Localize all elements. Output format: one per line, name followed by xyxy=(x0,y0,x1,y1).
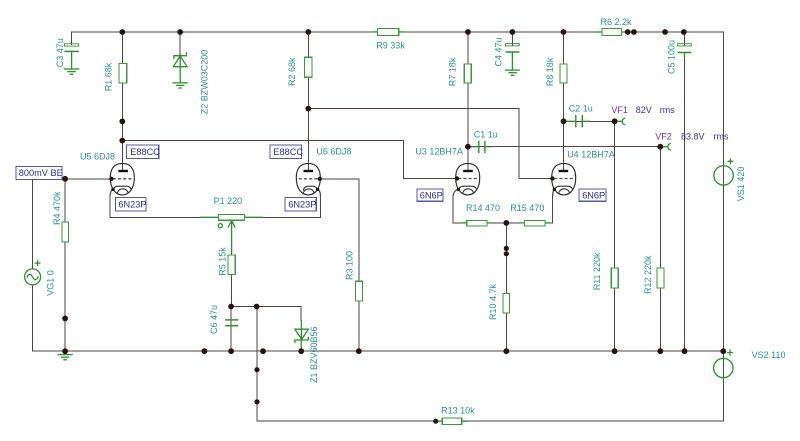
svg-text:VF1: VF1 xyxy=(611,105,628,115)
resistor R11 220k xyxy=(592,252,618,290)
wire top supply rail xyxy=(72,31,724,33)
svg-text:R11 220k: R11 220k xyxy=(592,252,602,290)
resistor R13 10k xyxy=(437,405,475,424)
svg-text:R9 33k: R9 33k xyxy=(376,40,405,50)
wire P1 wiper to R5 C6 node xyxy=(231,252,233,307)
triode U3 12BH7A xyxy=(415,147,479,197)
probe VF1 xyxy=(611,105,675,124)
potentiometer P1 220 xyxy=(201,196,263,253)
node dots mid xyxy=(62,106,663,424)
capacitor C2 1u xyxy=(567,103,593,127)
capacitor C1 1u xyxy=(471,129,498,153)
wire VG1 lower lead xyxy=(32,285,34,351)
wire bottom feedback rail xyxy=(257,420,723,422)
box input 800mV BE xyxy=(16,167,63,180)
wire R10 to ground xyxy=(505,223,507,351)
svg-text:6N23P: 6N23P xyxy=(118,200,146,210)
wire R1 plate line U5 xyxy=(121,32,123,171)
wire C5 to ground rail xyxy=(684,57,686,351)
box 6N6P U4 xyxy=(579,189,606,201)
svg-text:C2 1u: C2 1u xyxy=(569,103,593,113)
svg-text:rms: rms xyxy=(714,132,729,142)
wire U3 cathode to R14 xyxy=(453,196,461,223)
node dots top rail xyxy=(119,29,686,35)
svg-text:VG1 0: VG1 0 xyxy=(46,270,56,296)
svg-text:R6 2.2k: R6 2.2k xyxy=(601,17,633,27)
svg-text:rms: rms xyxy=(660,105,675,115)
svg-text:6N6P: 6N6P xyxy=(582,190,605,200)
wire R14 R15 junction xyxy=(492,222,519,224)
wire C6 to ground xyxy=(230,307,232,352)
svg-text:E88CC: E88CC xyxy=(130,147,160,157)
svg-text:U4 12BH7A: U4 12BH7A xyxy=(567,150,615,160)
svg-text:R5 15k: R5 15k xyxy=(218,247,228,276)
svg-text:R8 18k: R8 18k xyxy=(545,57,555,86)
wire R15 to U4 cathode xyxy=(550,196,553,223)
svg-text:R10 4.7k: R10 4.7k xyxy=(488,283,498,320)
wire R7 plate line U3 xyxy=(467,32,469,171)
resistor R10 4.7k xyxy=(488,283,510,320)
resistor R6 2.2k xyxy=(595,17,632,35)
svg-text:VS2 110: VS2 110 xyxy=(752,350,786,360)
resistor R8 18k xyxy=(545,57,567,86)
wire C4 ground stub xyxy=(511,52,513,70)
svg-text:C6 47u: C6 47u xyxy=(209,305,219,334)
svg-text:82V: 82V xyxy=(636,105,652,115)
wire Z2 stub xyxy=(179,32,181,55)
node dots ground rail xyxy=(62,348,726,354)
wire node to Z1 xyxy=(231,307,301,321)
source VS1 420 xyxy=(714,159,746,201)
wire P1 right to U6 cathode xyxy=(263,196,321,217)
svg-text:P1 220: P1 220 xyxy=(214,196,243,206)
svg-text:Z1 BZV60B56: Z1 BZV60B56 xyxy=(309,326,319,383)
box E88CC U6 xyxy=(270,145,303,158)
box 6N23P U6 xyxy=(285,198,316,211)
wire U5 grid input xyxy=(65,178,110,180)
svg-text:C4 47u: C4 47u xyxy=(494,37,504,66)
svg-text:R7 18k: R7 18k xyxy=(448,57,458,86)
wire R8 plate line U4 xyxy=(563,32,565,171)
svg-text:C5 100u: C5 100u xyxy=(666,40,676,74)
svg-text:800mV BE: 800mV BE xyxy=(19,168,63,178)
svg-text:R12 220k: R12 220k xyxy=(643,255,653,294)
svg-text:VF2: VF2 xyxy=(655,132,672,142)
svg-text:R1 68k: R1 68k xyxy=(104,62,114,91)
ground at Z2 xyxy=(173,83,187,88)
resistor R12 220k xyxy=(643,255,664,294)
svg-text:U5 6DJ8: U5 6DJ8 xyxy=(80,152,115,162)
wire C3 top stub xyxy=(71,32,73,45)
svg-text:R2 68k: R2 68k xyxy=(287,57,297,86)
resistor R7 18k xyxy=(448,57,472,86)
wire U5 cathode to P1 left xyxy=(110,196,200,217)
wire C5 top stub xyxy=(684,32,686,45)
wire VF1 R11 to ground xyxy=(614,121,616,351)
resistor R2 68k xyxy=(287,57,312,86)
capacitor C5 100u xyxy=(666,40,691,74)
svg-text:6N23P: 6N23P xyxy=(288,200,316,210)
svg-text:C1 1u: C1 1u xyxy=(474,129,498,139)
box E88CC U5 xyxy=(127,145,161,159)
resistor R9 33k xyxy=(373,28,406,50)
wire node B rail to U4 grid xyxy=(308,109,552,179)
probe VF2 xyxy=(655,132,729,151)
svg-text:U6 6DJ8: U6 6DJ8 xyxy=(316,146,351,156)
resistor R5 15k xyxy=(218,247,236,276)
capacitor C4 47u xyxy=(494,37,520,66)
svg-text:R4 470k: R4 470k xyxy=(52,191,62,225)
box 6N6P U3 xyxy=(417,189,443,201)
resistor R3 100 xyxy=(345,251,363,301)
resistor R15 470 xyxy=(510,203,550,226)
wire VG1 upper lead xyxy=(32,180,34,269)
zener Z2 BZW03C200 xyxy=(173,50,209,115)
svg-text:E88CC: E88CC xyxy=(273,147,303,157)
wire U6 grid to R3 xyxy=(320,179,359,351)
svg-text:Z2 BZW03C200: Z2 BZW03C200 xyxy=(200,50,210,115)
wire C4 stub xyxy=(511,32,513,45)
wire R2 plate line U6 xyxy=(307,32,309,171)
ground at input rail xyxy=(58,355,72,360)
svg-text:R15 470: R15 470 xyxy=(510,203,544,213)
triode U5 6DJ8 xyxy=(80,152,134,197)
svg-text:83.8V: 83.8V xyxy=(681,132,705,142)
wire feedback riser xyxy=(256,307,258,422)
resistor R14 470 xyxy=(462,203,501,226)
svg-text:VS1 420: VS1 420 xyxy=(736,167,746,202)
ground at C4 xyxy=(506,70,520,75)
triode U4 12BH7A xyxy=(552,150,615,197)
wire ground rail xyxy=(33,350,724,352)
wire U5 plate to U3 grid xyxy=(122,141,456,179)
zener Z1 BZV60B56 xyxy=(295,321,319,384)
wire input node through R4 to ground xyxy=(64,179,66,351)
svg-text:6N6P: 6N6P xyxy=(420,190,443,200)
wire VF2 R12 to ground xyxy=(659,147,661,352)
capacitor C6 47u xyxy=(209,305,238,334)
svg-text:C3 47u: C3 47u xyxy=(55,38,65,67)
triode U6 6DJ8 (mirrored) xyxy=(296,146,351,196)
box 6N23P U5 xyxy=(115,198,146,211)
resistor R4 470k xyxy=(52,191,69,242)
svg-text:R14 470: R14 470 xyxy=(466,203,500,213)
ground at C3 xyxy=(64,69,78,74)
wire right vertical through VS1 VS2 xyxy=(722,32,724,421)
wire C2 to VF1 xyxy=(564,120,615,122)
svg-text:R3 100: R3 100 xyxy=(345,251,355,280)
svg-text:R13 10k: R13 10k xyxy=(441,405,475,415)
source VS2 110 xyxy=(714,350,786,378)
svg-text:U3 12BH7A: U3 12BH7A xyxy=(415,147,463,157)
wire C1 to VF2 xyxy=(468,146,660,148)
resistor R1 68k xyxy=(104,62,127,91)
capacitor C3 47u xyxy=(55,38,79,69)
source VG1 0 xyxy=(25,261,56,296)
